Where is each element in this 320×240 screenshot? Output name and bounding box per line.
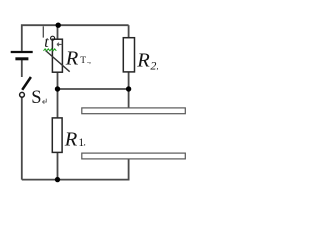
wire: R2 bottom lead through node B to upper plate — [128, 72, 130, 108]
battery cell: long plate — [11, 51, 33, 53]
green grammar squiggle under t-degree — [44, 49, 57, 51]
switch S blade — [22, 77, 31, 90]
svg-text:.: . — [83, 137, 86, 148]
switch S pivot circle — [20, 92, 25, 97]
wire: thermistor top lead from node at top rail — [57, 25, 59, 39]
leader line from top rail to t-degree — [42, 26, 44, 37]
word line-break mark after S — [42, 99, 46, 104]
wire: R1 branch from node A through to bottom rail — [57, 89, 59, 180]
capacitor lower plate — [82, 153, 186, 159]
wire: battery to switch — [21, 60, 23, 77]
wire: R2 top lead from top rail — [128, 25, 130, 38]
wire: switch to bottom rail — [21, 97, 23, 179]
thermistor small left arrow mark — [57, 43, 62, 46]
wire: thermistor bottom lead to node A — [57, 72, 59, 89]
svg-text:R: R — [65, 47, 79, 69]
svg-text:R: R — [64, 128, 78, 150]
capacitor upper plate — [82, 108, 186, 114]
battery cell: short thick plate — [15, 57, 28, 60]
resistor R1 body — [52, 118, 62, 152]
svg-text:,: , — [157, 62, 159, 71]
svg-text:T: T — [80, 56, 86, 66]
resistor R2 body — [123, 38, 134, 72]
wire: bottom rail and lower plate lead — [22, 159, 129, 180]
wire: node A to node B horizontal link — [58, 88, 129, 90]
node dot A: RT / R1 / link junction — [55, 86, 60, 91]
degree ring of t-degree — [51, 36, 55, 40]
thermistor RT diagonal stroke — [46, 51, 70, 72]
svg-text:R: R — [136, 49, 150, 71]
svg-text:2: 2 — [150, 59, 156, 73]
node dot: bottom rail / R1 junction — [55, 177, 60, 182]
node dot B: R2 / plate / link junction — [126, 86, 131, 91]
thermistor RT body — [52, 39, 62, 72]
svg-text:S: S — [31, 88, 41, 108]
svg-text:.,: ., — [87, 56, 91, 65]
wire: top rail from left rail to R2 drop — [22, 25, 129, 51]
node dot: top rail / RT junction — [56, 23, 61, 28]
